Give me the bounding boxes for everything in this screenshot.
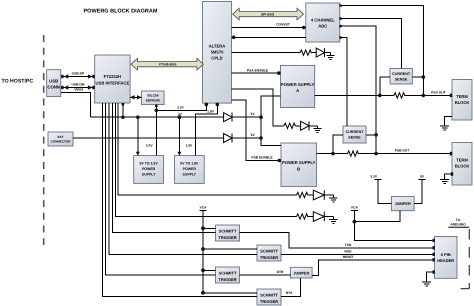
wire bus line 2 (FT2232H to pullup pair 2) — [116, 103, 296, 217]
svg-text:TERM: TERM — [456, 158, 468, 163]
svg-text:5V TO 3.3V: 5V TO 3.3V — [139, 162, 158, 166]
svg-text:3.3V: 3.3V — [177, 106, 185, 110]
wire CPLD status line B — [232, 89, 283, 126]
junction dot (1.8V supply feed on 0V rail) — [178, 115, 182, 119]
wire 5V rail to POWER SUPPLY A — [261, 96, 281, 138]
power rail VCA (right, to jumper J2 and 6 PIN HEADER) — [351, 205, 435, 242]
wire ADC ch4 sense (to CURRENT SENSE 2) — [339, 36, 347, 126]
wire RXD (ST2 output to 6 PIN HEADER) — [281, 249, 435, 256]
junction dot (3.3V rail at EEPROM drop) — [155, 109, 159, 113]
svg-text:PSA OUT: PSA OUT — [431, 90, 446, 94]
svg-text:ARDUINO: ARDUINO — [450, 222, 466, 226]
wire TERM BLOCK 1 ground leg — [445, 116, 452, 126]
jumper J2 (supply select) — [391, 197, 414, 211]
wire PSB OUT (POWER SUPPLY B to TERM BLOCK 2 through shunt R4) — [317, 149, 453, 156]
svg-text:HEADER: HEADER — [437, 258, 454, 263]
wire CURRENT SENSE 1 left leg — [380, 77, 390, 95]
junction dot (VCA rail at ST4) — [201, 291, 205, 295]
dc-dc converter 5V TO 3.3V POWER SUPPLY — [134, 156, 164, 184]
wire CURRENT SENSE 2 right leg — [366, 134, 376, 136]
svg-text:VCA: VCA — [351, 205, 359, 209]
wire ADC ch3 sense (to PSB shunt high side) — [339, 25, 376, 154]
junction dot (VCA rail at ST3) — [201, 268, 205, 272]
svg-text:TXD: TXD — [345, 243, 352, 247]
wire CURRENT SENSE 1 right leg — [412, 76, 423, 78]
wire 5V rail to POWER SUPPLY B — [261, 138, 281, 146]
ground (TERM BLOCK 1) — [440, 126, 449, 130]
wire RESET (jumper J3 to 6 PIN HEADER) — [312, 255, 435, 276]
schmitt trigger U6 — [257, 245, 281, 261]
svg-text:EXT: EXT — [57, 135, 63, 139]
diode D1 (USB 5V OR-ing) — [224, 112, 261, 122]
svg-text:POWER SUPPLY: POWER SUPPLY — [282, 160, 316, 165]
wire CPLD status line A — [232, 52, 299, 54]
schmitt trigger U8 — [257, 289, 281, 305]
wire 5V feed to 3.3V supply (with arrowhead) — [136, 117, 140, 156]
wire CONVST (CPLD to ADC) — [232, 23, 306, 30]
svg-text:POWER: POWER — [183, 167, 197, 171]
dashed boundary bracket TO ARDUINO — [448, 226, 469, 228]
terminal block TB2 TERM BLOCK — [452, 143, 472, 186]
power supply A block — [281, 65, 315, 107]
resistor R2 — [283, 123, 296, 128]
svg-text:PSA ENABLE: PSA ENABLE — [247, 68, 269, 72]
svg-text:DTR: DTR — [277, 270, 284, 274]
svg-text:TRIGGER: TRIGGER — [218, 277, 236, 282]
svg-text:TRIGGER: TRIGGER — [218, 235, 236, 240]
junction dot (CS2 right leg) — [374, 133, 378, 137]
wire ADC ch1 sense (to PSA shunt high side) — [339, 4, 423, 95]
svg-text:5M570: 5M570 — [211, 50, 224, 55]
ground (after D6) — [329, 217, 337, 224]
led D6 — [313, 212, 333, 222]
wire ADC ch2 sense (to CURRENT SENSE 1) — [339, 17, 401, 68]
ground (after D5) — [329, 195, 337, 202]
wire VBUS (USB CONN down to 5V/0V rail) — [61, 88, 91, 118]
svg-text:JUMPER: JUMPER — [293, 272, 309, 276]
power rail VCA (left, feeding schmitt triggers) — [200, 205, 208, 292]
schmitt trigger U5 — [216, 225, 240, 241]
wire R6 to D6 — [309, 216, 314, 218]
wire VCA to ST1 upper — [203, 227, 216, 229]
svg-text:CONN: CONN — [47, 85, 60, 90]
wire 0V rail (VBUS rail to diode D1) — [91, 113, 224, 118]
wire CPLD to ADC (second control line) — [232, 36, 306, 40]
wire bus line 3 (FT2232H to ST1 input) — [113, 103, 216, 233]
wire CURRENT SENSE 2 left leg — [333, 135, 343, 154]
wire PSA OUT (POWER SUPPLY A to TERM BLOCK 1 through shunt R3) — [315, 90, 452, 97]
junction dot (VCA rail at ST2) — [201, 247, 205, 251]
svg-text:EEPROM: EEPROM — [146, 99, 160, 103]
svg-text:SENSE: SENSE — [395, 78, 408, 82]
eeprom U2 93LC56 EEPROM — [142, 91, 165, 105]
label TO ARDUINO — [450, 218, 466, 226]
svg-text:RTS: RTS — [286, 291, 293, 295]
junction dot (shunt right on PSA OUT) — [422, 94, 426, 98]
svg-text:5V TO 1.8V: 5V TO 1.8V — [180, 162, 199, 166]
wire PSB ENABLE (CPLD to POWER SUPPLY B) — [232, 100, 282, 163]
wire bus line 6 (FT2232H to ST3 input) — [106, 103, 216, 275]
svg-text:RESET: RESET — [343, 255, 354, 259]
led D4 — [301, 121, 318, 130]
led D5 — [313, 190, 333, 200]
power rail 3.3V (to jumper J2) — [370, 175, 391, 204]
svg-text:TERM: TERM — [456, 94, 468, 99]
junction dot (shunt right on PSB OUT) — [374, 152, 378, 156]
svg-text:VCA: VCA — [200, 205, 208, 209]
svg-text:SUPPLY: SUPPLY — [182, 173, 196, 177]
svg-text:TO HOST/PC: TO HOST/PC — [2, 79, 34, 85]
current sense block 1 — [390, 69, 412, 85]
wire bus line 7 (FT2232H to ST4 input) — [102, 103, 257, 297]
bus arrow FT245 BUS (FT2232H to CPLD) — [131, 58, 203, 70]
dc-dc converter 5V TO 1.8V POWER SUPPLY — [175, 156, 205, 184]
header J4 6 PIN HEADER — [435, 237, 458, 279]
wire 6 PIN HEADER ground leg — [427, 270, 435, 282]
svg-text:SUPPLY: SUPPLY — [142, 173, 156, 177]
led D3 — [316, 48, 330, 57]
resistor R6 — [296, 214, 309, 219]
svg-text:PSB ENABLE: PSB ENABLE — [251, 156, 273, 160]
svg-text:FT2232H: FT2232H — [104, 74, 121, 79]
resistor R4 (PSB shunt) — [347, 151, 360, 156]
wire RTS (ST4 output to jumper J3 bottom) — [281, 278, 300, 297]
svg-text:POWER SUPPLY: POWER SUPPLY — [281, 82, 315, 87]
svg-text:B: B — [297, 167, 300, 172]
resistor R1 — [299, 50, 312, 55]
power rail 5V (to jumper J2) — [414, 175, 425, 204]
wire TXD (ST1 output to 6 PIN HEADER) — [240, 233, 435, 250]
svg-text:CONVST: CONVST — [276, 23, 290, 27]
wire 3.3V rail (supply1 output up to EEPROM and CPLD) — [155, 103, 208, 156]
svg-text:TRIGGER: TRIGGER — [260, 299, 278, 304]
junction dot (CS1 right leg) — [422, 75, 426, 79]
adc U4 4 CHANNEL ADC — [306, 3, 340, 42]
svg-text:PSB OUT: PSB OUT — [395, 149, 410, 153]
current sense block 2 — [343, 126, 366, 143]
junction dot (VCA rail at ST1) — [201, 226, 205, 230]
svg-text:RXD: RXD — [345, 249, 353, 253]
svg-text:USB DP: USB DP — [72, 71, 85, 75]
wire PSA ENABLE (CPLD to POWER SUPPLY A) — [232, 68, 281, 74]
ground (6 PIN HEADER) — [422, 282, 431, 286]
svg-text:SPI BUS: SPI BUS — [261, 13, 275, 17]
usb interface U1 FT2232H — [95, 55, 130, 103]
svg-text:BLOCK: BLOCK — [455, 164, 470, 169]
svg-text:BLOCK: BLOCK — [455, 100, 470, 105]
wire VCA to ST2 upper — [203, 248, 257, 250]
svg-text:JUMPER: JUMPER — [395, 201, 411, 206]
external power connector EXT CONNECTOR — [48, 132, 73, 146]
wire 1.8V rail (supply2 output up to CPLD) — [196, 103, 219, 156]
wire USB DP (USB CONN to FT2232H, double arrow) — [61, 71, 95, 78]
svg-text:ALTERA: ALTERA — [209, 44, 226, 49]
svg-text:USB: USB — [49, 79, 58, 84]
wire VCA to ST3 upper — [203, 269, 216, 271]
svg-text:CURRENT: CURRENT — [392, 72, 411, 76]
wire USB DM (USB CONN to FT2232H, double arrow) — [61, 82, 95, 89]
junction dot (D2 output on 5V rail) — [259, 136, 263, 140]
wire TERM BLOCK 2 ground leg — [445, 172, 454, 179]
wire FT2232H power pin tap — [122, 103, 125, 117]
svg-text:SCHMITT: SCHMITT — [219, 228, 237, 233]
schmitt trigger U7 — [216, 267, 240, 283]
svg-text:VBUS: VBUS — [74, 88, 84, 92]
ground (after D4) — [314, 126, 322, 133]
wire DTR (ST3 output to jumper J3) — [240, 270, 291, 275]
junction dot (shunt left on PSA OUT) — [378, 94, 382, 98]
ground (TERM BLOCK 2) — [440, 180, 449, 184]
wire bus line 5 (FT2232H to ST2 input) — [109, 103, 257, 254]
svg-text:POWERG BLOCK DIAGRAM: POWERG BLOCK DIAGRAM — [84, 9, 158, 15]
wire bus line 1 (FT2232H to pullup pair 1) — [118, 103, 296, 195]
svg-text:A: A — [296, 88, 299, 93]
svg-text:6 PIN: 6 PIN — [441, 252, 451, 257]
svg-text:93LC56: 93LC56 — [147, 94, 159, 98]
wire VCA to ST4 upper — [203, 292, 257, 294]
cpld U3 ALTERA 5M570 CPLD — [203, 2, 232, 104]
svg-text:CONNECTOR: CONNECTOR — [51, 140, 72, 144]
svg-text:TRIGGER: TRIGGER — [260, 255, 278, 260]
bus arrow SPI BUS (CPLD to ADC) — [233, 8, 304, 20]
svg-text:1.8V: 1.8V — [207, 110, 215, 114]
svg-text:4 CHANNEL: 4 CHANNEL — [311, 18, 335, 23]
junction dot (FT2232H tap on 0V rail) — [121, 115, 125, 119]
svg-text:POWER: POWER — [142, 167, 156, 171]
resistor R5 — [296, 192, 309, 197]
svg-text:SCHMITT: SCHMITT — [260, 292, 278, 297]
svg-text:ADC: ADC — [318, 24, 327, 29]
terminal block TB1 TERM BLOCK — [452, 80, 472, 121]
dashed boundary line TO HOST/PC — [43, 35, 45, 245]
usb connector J1 USB CONN — [47, 70, 61, 97]
wire R5 to D5 — [309, 194, 314, 196]
junction dot (shunt left on PSB OUT) — [331, 152, 335, 156]
svg-text:SENSE: SENSE — [348, 136, 361, 140]
power supply B block — [281, 143, 317, 186]
svg-text:3.3V: 3.3V — [370, 175, 378, 179]
svg-text:SCHMITT: SCHMITT — [219, 270, 237, 275]
svg-text:CPLD: CPLD — [211, 56, 222, 61]
junction dot (D1 output on 5V rail) — [259, 115, 263, 119]
svg-text:SCHMITT: SCHMITT — [260, 248, 278, 253]
junction dot (3.3V supply feed on 0V rail) — [136, 115, 140, 119]
jumper J3 (DTR/RTS) — [291, 267, 313, 278]
wire 5V feed to 1.8V supply (with arrowhead) — [177, 117, 181, 156]
wire EXT CONNECTOR to diode D2 — [73, 137, 224, 139]
svg-text:3.3V: 3.3V — [146, 144, 154, 148]
ground (after D3) — [326, 53, 334, 60]
resistor R3 (PSA shunt) — [393, 93, 406, 98]
wire EEPROM to FT2232H (arrow into FT2232H) — [130, 95, 141, 99]
svg-text:FT245 BUS: FT245 BUS — [159, 63, 177, 67]
svg-text:USB INTERFACE: USB INTERFACE — [96, 81, 130, 86]
diode D2 (EXT 5V OR-ing) — [224, 133, 261, 143]
svg-text:CURRENT: CURRENT — [345, 130, 364, 134]
wire R1 to D3 — [312, 52, 316, 54]
svg-text:USB DM: USB DM — [71, 82, 84, 86]
svg-text:1.8V: 1.8V — [186, 144, 194, 148]
wire R2 to D4 — [296, 125, 300, 127]
